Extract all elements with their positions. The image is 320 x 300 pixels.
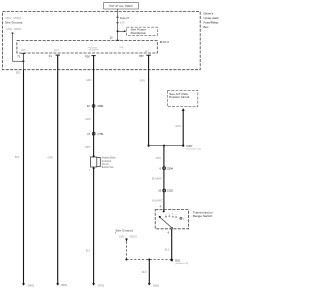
svg-text:G502/3: G502/3 — [14, 29, 22, 31]
svg-text:Alarm: Alarm — [102, 163, 109, 166]
svg-text:Fuse 27: Fuse 27 — [120, 17, 130, 20]
svg-text:G501: G501 — [6, 28, 13, 31]
svg-text:See Ground: See Ground — [116, 229, 134, 233]
svg-text:G101: G101 — [153, 283, 160, 287]
svg-text:C801: C801 — [98, 104, 105, 108]
svg-text:BLK: BLK — [142, 271, 147, 274]
svg-text:BLK/WHT: BLK/WHT — [152, 179, 163, 181]
svg-text:BLK: BLK — [165, 249, 170, 252]
svg-text:C6-1: C6-1 — [54, 50, 60, 52]
svg-text:G502/3: G502/3 — [129, 236, 137, 238]
svg-text:P26: P26 — [85, 55, 90, 59]
svg-text:MICU: MICU — [160, 40, 170, 44]
svg-text:(Terminal 7-8): (Terminal 7-8) — [175, 263, 188, 265]
svg-text:P57: P57 — [139, 54, 144, 58]
svg-text:A17: A17 — [145, 50, 150, 53]
svg-text:4: 4 — [160, 205, 162, 209]
svg-text:G501: G501 — [5, 17, 12, 20]
svg-text:GRN: GRN — [140, 80, 146, 83]
svg-text:HOT AT ALL TIMES: HOT AT ALL TIMES — [109, 5, 133, 8]
svg-text:E3: E3 — [16, 71, 20, 75]
svg-text:Buzzer Unit: Buzzer Unit — [102, 166, 114, 169]
svg-text:6: 6 — [160, 166, 162, 170]
svg-text:G502: G502 — [61, 283, 68, 287]
svg-text:G501: G501 — [119, 236, 125, 238]
svg-text:GRN: GRN — [86, 79, 92, 82]
svg-text:7(M): 7(M) — [21, 50, 26, 52]
svg-text:See Ground: See Ground — [5, 21, 23, 25]
svg-text:T1: T1 — [17, 54, 21, 58]
svg-text:10: 10 — [158, 189, 161, 193]
svg-text:Distribution: Distribution — [131, 31, 147, 35]
svg-text:Keyless Entry: Keyless Entry — [102, 157, 117, 160]
svg-text:D31: D31 — [175, 258, 180, 262]
svg-text:Under-dash: Under-dash — [204, 16, 219, 20]
svg-text:Fuse/Relay: Fuse/Relay — [204, 20, 219, 24]
svg-text:Position Circuit: Position Circuit — [169, 95, 189, 99]
svg-text:C504: C504 — [167, 166, 174, 170]
svg-text:Antitheft: Antitheft — [102, 160, 112, 163]
svg-text:G401: G401 — [28, 283, 35, 287]
svg-text:C751: C751 — [98, 132, 105, 136]
svg-text:F1: F1 — [49, 54, 53, 58]
svg-text:4: 4 — [168, 231, 170, 235]
svg-text:WHT: WHT — [85, 146, 91, 149]
svg-text:10: 10 — [87, 104, 90, 108]
svg-text:BLK/WHT: BLK/WHT — [152, 200, 163, 202]
svg-text:GRN: GRN — [156, 157, 162, 160]
svg-text:BLK/WHT: BLK/WHT — [89, 49, 99, 51]
svg-text:GRN: GRN — [48, 157, 54, 160]
svg-text:10A: 10A — [120, 22, 125, 25]
svg-text:(Terminal 7-10): (Terminal 7-10) — [186, 148, 201, 151]
svg-text:BLK: BLK — [86, 250, 91, 253]
svg-text:2: 2 — [89, 170, 91, 172]
svg-text:(G6): (G6) — [119, 47, 124, 49]
svg-text:Box: Box — [204, 25, 210, 29]
svg-text:22: 22 — [110, 37, 113, 40]
svg-text:D: D — [183, 218, 185, 220]
svg-text:C407: C407 — [186, 144, 193, 148]
svg-text:G502/3: G502/3 — [13, 17, 22, 20]
svg-text:BLK: BLK — [15, 156, 20, 159]
svg-text:G701: G701 — [98, 283, 105, 287]
svg-text:GRN: GRN — [175, 125, 181, 128]
svg-text:GRN: GRN — [85, 118, 91, 121]
svg-text:C102: C102 — [167, 189, 174, 193]
svg-text:Range Switch: Range Switch — [193, 214, 213, 218]
svg-text:Driver's: Driver's — [204, 11, 214, 15]
svg-text:17: 17 — [87, 132, 90, 136]
